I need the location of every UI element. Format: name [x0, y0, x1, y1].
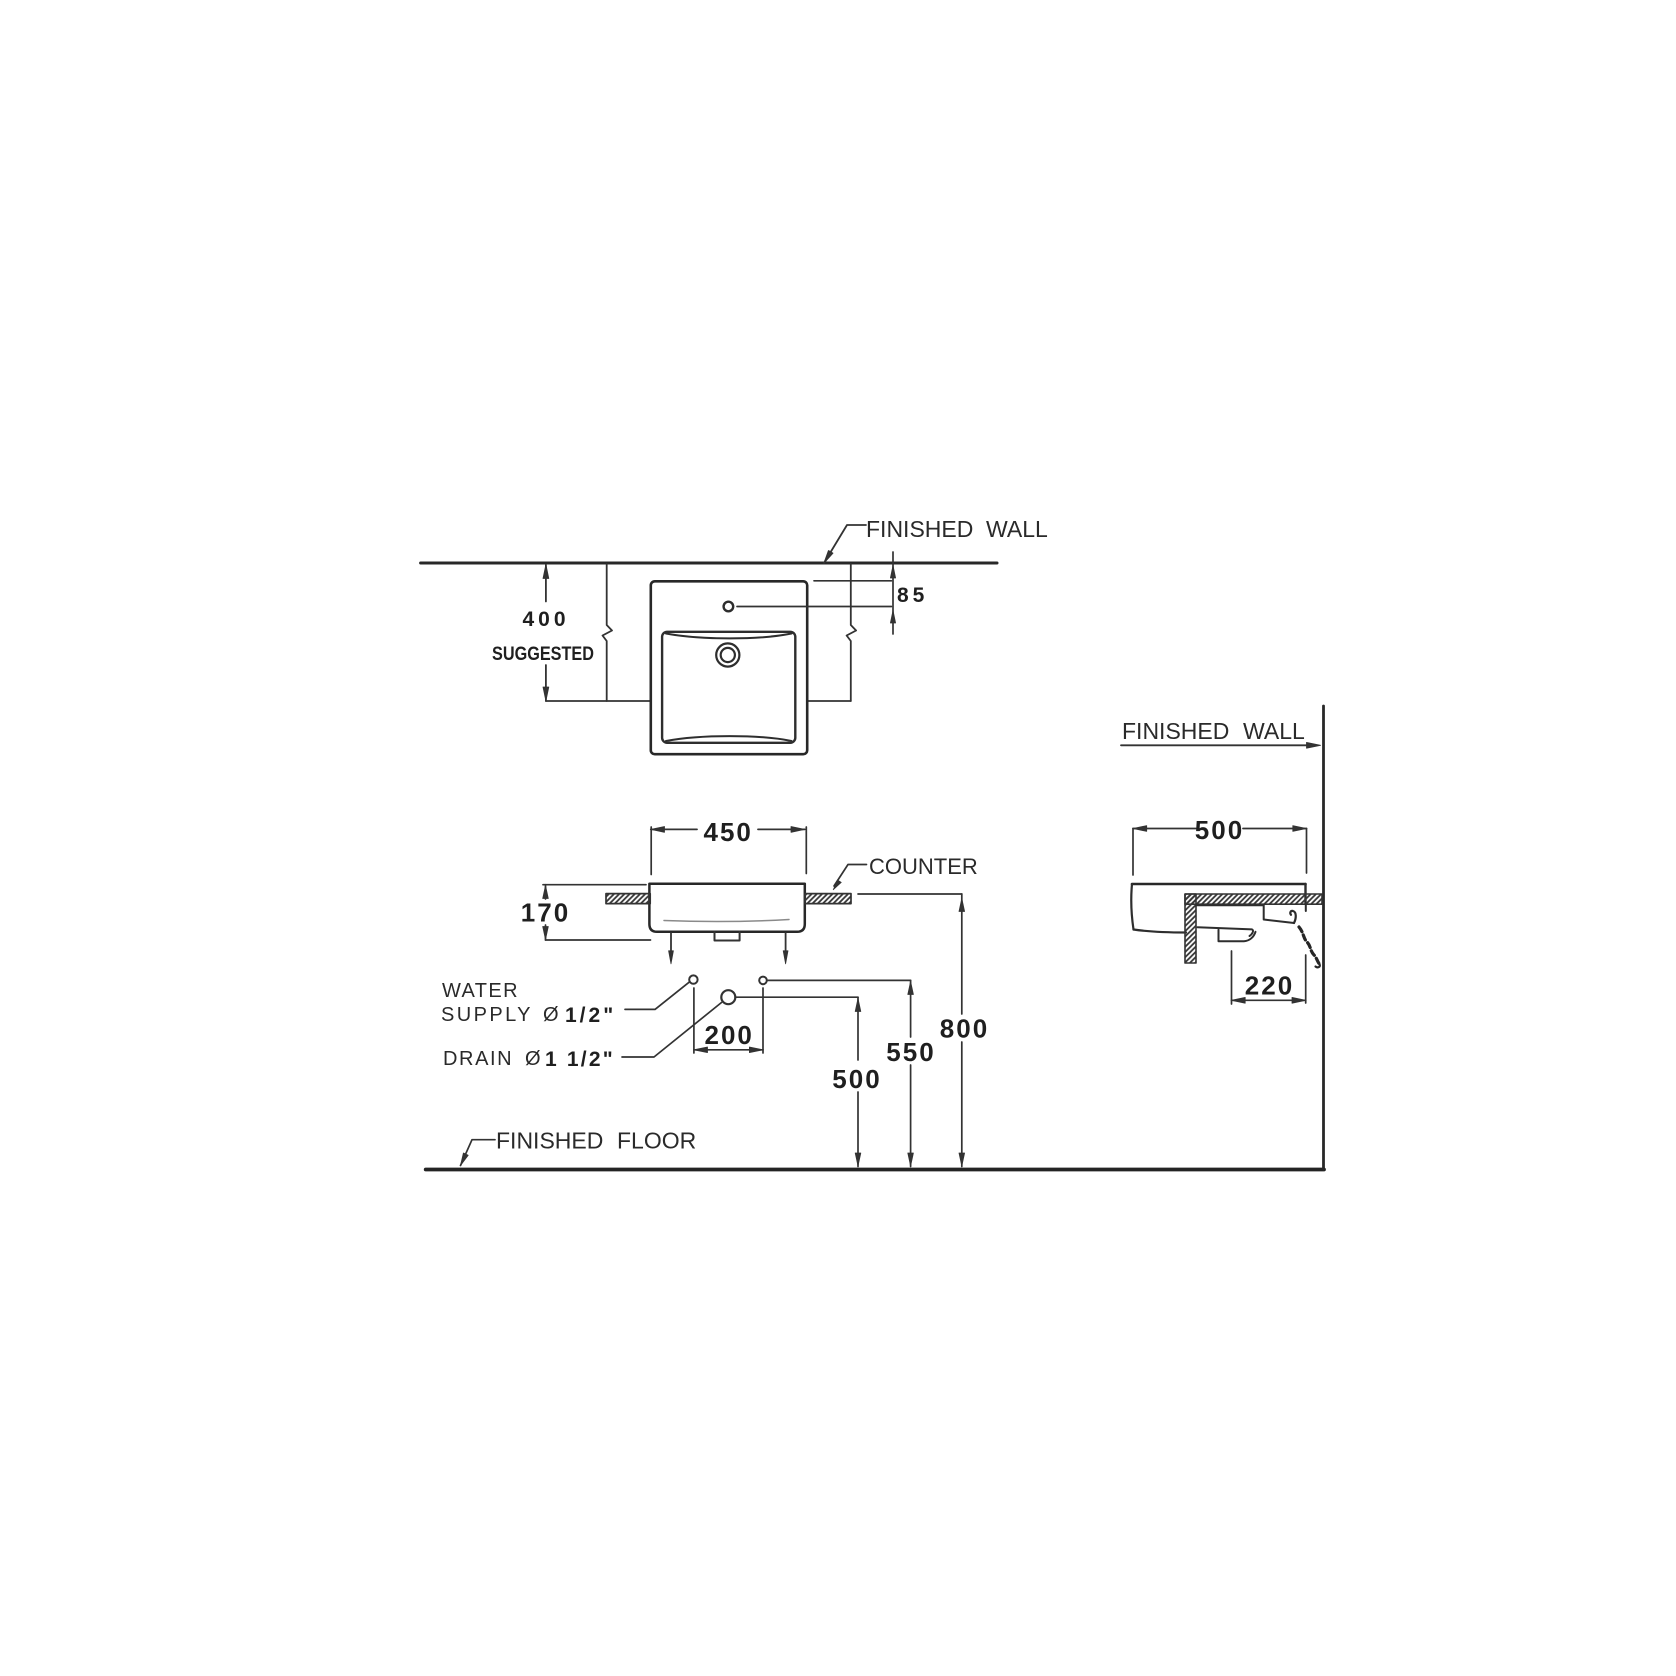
drain stub (side): [1219, 930, 1256, 942]
svg-text:800: 800: [940, 1014, 989, 1044]
dimension 550 (vertical): [910, 980, 912, 1037]
bottom tick line of 400 dim: [546, 700, 651, 702]
basin front underside: [1134, 930, 1187, 933]
dimension 450 line: [651, 828, 697, 830]
drain overflow circles: [716, 643, 739, 666]
svg-text:400: 400: [522, 608, 569, 631]
svg-text:500: 500: [832, 1064, 881, 1094]
svg-text:DRAIN: DRAIN: [443, 1048, 513, 1070]
dimension 170: [543, 884, 646, 886]
dimension 85 line: [892, 552, 894, 634]
counter front edge hatched strip: [1185, 894, 1196, 963]
drain hole: [721, 990, 735, 1004]
bowl interior faint line: [664, 920, 789, 922]
counter slab hatched (side): [1185, 894, 1322, 904]
drain stub (front): [715, 932, 740, 941]
dimension 500 (vertical): [857, 997, 859, 1060]
left extension line with break: [603, 564, 613, 701]
water supply hole left: [689, 975, 697, 983]
bowl top arc: [666, 634, 792, 639]
right extension line with break: [847, 564, 857, 701]
svg-text:Ø: Ø: [543, 1004, 559, 1026]
basin back edge below counter: [1305, 905, 1307, 912]
basin front face: [1131, 884, 1133, 930]
basin outer square (plan): [651, 581, 807, 754]
450 extension lines: [650, 827, 652, 875]
svg-text:Ø: Ø: [525, 1048, 541, 1070]
bowl back edge (side): [1264, 905, 1294, 923]
basin top reference line: [814, 580, 892, 582]
svg-text:1 1/2": 1 1/2": [545, 1048, 615, 1071]
svg-text:FINISHED: FINISHED: [1122, 718, 1229, 744]
dimension 800 (vertical): [961, 894, 963, 1014]
counter hatch right: [805, 894, 851, 904]
svg-text:500: 500: [1195, 815, 1244, 845]
deck underside line: [1196, 904, 1264, 906]
finished wall line (top): [421, 562, 997, 565]
svg-text:FLOOR: FLOOR: [617, 1128, 696, 1154]
counter hatch left: [606, 894, 650, 904]
leader to FINISHED WALL label: [824, 525, 866, 563]
svg-text:SUPPLY: SUPPLY: [441, 1004, 533, 1026]
svg-text:FINISHED: FINISHED: [496, 1128, 603, 1154]
svg-text:WALL: WALL: [986, 516, 1048, 542]
svg-text:170: 170: [521, 898, 570, 928]
bowl underside (side): [1198, 927, 1254, 936]
basin body (front elevation): [649, 884, 804, 932]
bowl bottom arc: [666, 736, 792, 741]
finished floor line: [426, 1168, 1324, 1172]
svg-text:85: 85: [897, 584, 928, 607]
connector drain to 500: [735, 996, 858, 998]
basin rim top (side): [1132, 883, 1306, 886]
drain leader: [622, 1003, 722, 1058]
svg-text:FINISHED: FINISHED: [866, 516, 973, 542]
connector supply to 550: [767, 979, 911, 981]
counter level line to 800 dim: [858, 893, 962, 895]
wall line (right, vertical): [1322, 706, 1325, 1169]
faucet hole: [724, 602, 734, 612]
svg-text:COUNTER: COUNTER: [869, 854, 978, 879]
supply hose hook: [1290, 911, 1295, 923]
svg-text:WALL: WALL: [1243, 718, 1305, 744]
svg-text:1/2": 1/2": [565, 1004, 616, 1027]
water supply leader: [625, 982, 690, 1010]
supply hose end curl: [1316, 964, 1320, 968]
dimension 500 (side): [1133, 828, 1196, 830]
svg-text:550: 550: [886, 1037, 935, 1067]
dimension 400 line: [545, 565, 547, 602]
faucet hole reference line: [737, 606, 892, 608]
basin back edge: [1304, 884, 1306, 904]
svg-text:WATER: WATER: [442, 980, 519, 1002]
mounting bolt right: [785, 933, 787, 951]
supply hose chain: [1299, 927, 1319, 964]
basin inner bowl (plan): [662, 632, 795, 743]
mounting bolt left: [670, 933, 672, 951]
underline leader with arrow to wall: [1121, 744, 1310, 746]
svg-text:200: 200: [705, 1020, 754, 1050]
svg-text:220: 220: [1245, 971, 1294, 1001]
water supply hole right: [759, 977, 767, 985]
svg-text:SUGGESTED: SUGGESTED: [492, 644, 594, 665]
svg-text:450: 450: [704, 817, 753, 847]
dimension 220: [1231, 951, 1233, 1004]
dimension 200: [693, 988, 695, 1053]
